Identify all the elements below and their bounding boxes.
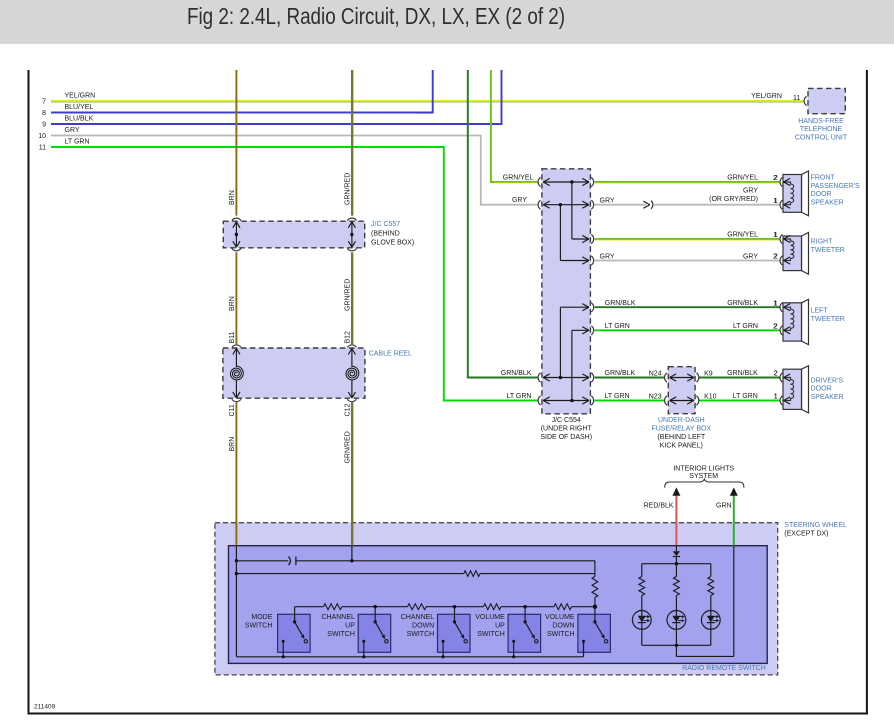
svg-text:STEERING WHEEL: STEERING WHEEL <box>784 522 847 529</box>
svg-text:C11: C11 <box>229 404 236 416</box>
svg-text:GRN/BLK: GRN/BLK <box>727 300 758 307</box>
svg-text:GRY: GRY <box>512 197 527 204</box>
svg-text:2: 2 <box>774 371 778 378</box>
svg-text:9: 9 <box>42 122 46 129</box>
svg-text:BRN: BRN <box>229 296 236 311</box>
svg-text:BLU/YEL: BLU/YEL <box>65 104 94 111</box>
svg-text:GLOVE BOX): GLOVE BOX) <box>371 240 414 247</box>
svg-text:B12: B12 <box>344 331 351 344</box>
svg-text:RIGHT: RIGHT <box>811 239 834 246</box>
svg-text:GRY: GRY <box>743 187 758 194</box>
svg-text:GRN/BLK: GRN/BLK <box>501 370 532 377</box>
svg-text:11: 11 <box>39 145 46 152</box>
svg-text:GRN: GRN <box>716 502 732 509</box>
svg-text:FRONT: FRONT <box>811 175 836 182</box>
svg-text:BRN: BRN <box>229 190 236 205</box>
svg-text:SWITCH: SWITCH <box>547 631 575 638</box>
svg-text:DOOR: DOOR <box>811 191 832 198</box>
svg-text:K10: K10 <box>704 394 717 401</box>
svg-text:N24: N24 <box>649 371 662 378</box>
svg-text:GRN/RED: GRN/RED <box>344 279 351 311</box>
svg-text:TWEETER: TWEETER <box>811 247 845 254</box>
svg-text:(BEHIND: (BEHIND <box>371 231 400 238</box>
svg-text:LT GRN: LT GRN <box>506 393 531 400</box>
svg-text:B11: B11 <box>229 331 236 343</box>
svg-text:7: 7 <box>42 99 46 106</box>
svg-text:LT GRN: LT GRN <box>605 323 630 330</box>
svg-text:BRN: BRN <box>229 437 236 452</box>
svg-text:N23: N23 <box>649 394 662 401</box>
svg-text:2: 2 <box>773 324 777 331</box>
svg-text:DOWN: DOWN <box>412 622 434 629</box>
svg-text:2: 2 <box>773 254 777 261</box>
svg-text:1: 1 <box>773 232 777 239</box>
svg-text:CABLE REEL: CABLE REEL <box>369 351 412 358</box>
svg-text:SWITCH: SWITCH <box>327 631 355 638</box>
svg-text:DOOR: DOOR <box>811 386 832 393</box>
svg-text:K9: K9 <box>704 371 713 378</box>
svg-text:DRIVER'S: DRIVER'S <box>811 377 844 384</box>
svg-text:GRY: GRY <box>600 253 615 260</box>
svg-text:CHANNEL: CHANNEL <box>321 614 355 621</box>
svg-text:VOLUME: VOLUME <box>545 614 575 621</box>
svg-text:C12: C12 <box>344 404 351 417</box>
svg-text:SPEAKER: SPEAKER <box>811 394 844 401</box>
svg-text:MODE: MODE <box>251 614 272 621</box>
svg-text:2: 2 <box>773 175 777 182</box>
svg-text:BLU/BLK: BLU/BLK <box>65 115 94 122</box>
svg-text:SIDE OF DASH): SIDE OF DASH) <box>540 434 592 441</box>
svg-text:YEL/GRN: YEL/GRN <box>751 93 782 100</box>
svg-text:1: 1 <box>773 300 777 307</box>
svg-text:(EXCEPT DX): (EXCEPT DX) <box>784 531 828 538</box>
svg-text:SPEAKER: SPEAKER <box>811 200 844 207</box>
svg-text:J/C C554: J/C C554 <box>552 417 581 424</box>
svg-text:SWITCH: SWITCH <box>245 622 273 629</box>
svg-text:GRN/RED: GRN/RED <box>344 173 351 205</box>
svg-text:J/C C557: J/C C557 <box>371 221 400 228</box>
svg-text:SWITCH: SWITCH <box>477 631 505 638</box>
svg-text:LT GRN: LT GRN <box>605 393 630 400</box>
svg-text:RADIO REMOTE SWITCH: RADIO REMOTE SWITCH <box>682 665 766 672</box>
svg-text:KICK PANEL): KICK PANEL) <box>660 443 703 450</box>
svg-text:INTERIOR LIGHTS: INTERIOR LIGHTS <box>673 465 734 472</box>
svg-text:GRY: GRY <box>600 198 615 205</box>
svg-text:LT GRN: LT GRN <box>733 323 758 330</box>
svg-text:LEFT: LEFT <box>811 308 829 315</box>
svg-text:GRN/RED: GRN/RED <box>344 431 351 463</box>
svg-text:RED/BLK: RED/BLK <box>644 502 674 509</box>
svg-text:LT GRN: LT GRN <box>733 393 758 400</box>
svg-text:UP: UP <box>345 622 355 629</box>
svg-text:GRN/BLK: GRN/BLK <box>605 300 636 307</box>
svg-text:Fig 2: 2.4L, Radio Circuit, DX: Fig 2: 2.4L, Radio Circuit, DX, LX, EX (… <box>187 4 565 29</box>
svg-text:GRN/YEL: GRN/YEL <box>727 174 758 181</box>
svg-text:1: 1 <box>774 394 778 401</box>
svg-text:FUSE/RELAY BOX: FUSE/RELAY BOX <box>651 426 711 433</box>
svg-text:211409: 211409 <box>34 704 56 711</box>
svg-text:TWEETER: TWEETER <box>811 316 845 323</box>
svg-text:GRY: GRY <box>743 253 758 260</box>
svg-text:(UNDER RIGHT: (UNDER RIGHT <box>541 425 593 432</box>
svg-text:(OR GRY/RED): (OR GRY/RED) <box>709 196 758 203</box>
svg-text:HANDS-FREE: HANDS-FREE <box>798 118 844 125</box>
svg-text:11: 11 <box>793 95 800 102</box>
svg-text:VOLUME: VOLUME <box>475 614 505 621</box>
svg-text:SWITCH: SWITCH <box>407 631 435 638</box>
svg-text:GRY: GRY <box>65 127 80 134</box>
svg-text:1: 1 <box>773 198 777 205</box>
svg-text:UNDER-DASH: UNDER-DASH <box>658 417 705 424</box>
svg-text:UP: UP <box>495 622 505 629</box>
svg-text:10: 10 <box>38 133 46 140</box>
svg-text:LT GRN: LT GRN <box>65 138 90 145</box>
svg-text:GRN/BLK: GRN/BLK <box>727 370 758 377</box>
svg-text:GRN/BLK: GRN/BLK <box>605 370 636 377</box>
svg-text:YEL/GRN: YEL/GRN <box>65 92 96 99</box>
svg-text:SYSTEM: SYSTEM <box>689 473 718 480</box>
svg-text:CONTROL UNIT: CONTROL UNIT <box>795 135 848 142</box>
svg-text:TELEPHONE: TELEPHONE <box>800 126 843 133</box>
svg-text:GRN/YEL: GRN/YEL <box>503 174 534 181</box>
svg-text:DOWN: DOWN <box>552 622 574 629</box>
svg-text:8: 8 <box>42 110 46 117</box>
svg-text:CHANNEL: CHANNEL <box>401 614 435 621</box>
svg-text:GRN/YEL: GRN/YEL <box>727 231 758 238</box>
svg-text:PASSENGER'S: PASSENGER'S <box>811 183 860 190</box>
svg-text:(BEHIND LEFT: (BEHIND LEFT <box>657 434 706 441</box>
